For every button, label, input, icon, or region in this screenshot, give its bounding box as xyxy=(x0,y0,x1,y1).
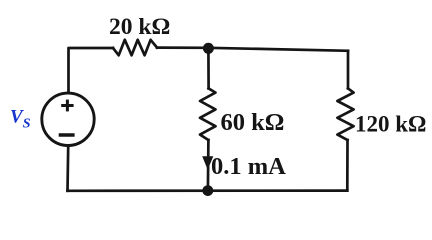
current arrow 0.1 mA pointing down xyxy=(202,156,213,169)
resistor R3 120 kOhm zigzag xyxy=(337,88,353,140)
svg-text:20 kΩ: 20 kΩ xyxy=(109,14,170,40)
wire bottom segment xyxy=(68,189,348,192)
svg-text:60 kΩ: 60 kΩ xyxy=(221,109,285,136)
wire top right segment node A to corner xyxy=(208,48,348,51)
wire right vertical top xyxy=(347,51,350,89)
wire top middle segment to node A xyxy=(157,46,208,49)
wire middle vertical to node B xyxy=(207,140,210,191)
node B junction dot xyxy=(202,185,213,196)
svg-text:0.1 mA: 0.1 mA xyxy=(211,153,286,180)
node A junction dot xyxy=(203,43,214,54)
wire left vertical bottom xyxy=(66,147,69,191)
resistor R2 60 kOhm zigzag xyxy=(200,88,216,140)
svg-text:120 kΩ: 120 kΩ xyxy=(355,112,426,137)
resistor R1 20 kOhm zigzag xyxy=(113,40,157,56)
minus sign of source xyxy=(59,133,75,136)
wire right vertical bottom xyxy=(346,140,349,191)
wire middle vertical from node A to R2 xyxy=(207,48,210,88)
plus sign of source xyxy=(61,100,73,112)
voltage source VS circle xyxy=(42,93,94,145)
svg-text:VS: VS xyxy=(10,107,31,132)
wire top-left segment from source to resistor R1 xyxy=(69,48,114,92)
